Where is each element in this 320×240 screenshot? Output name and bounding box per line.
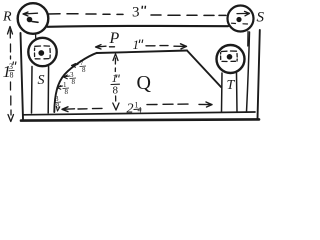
left dimension dashed line upper [9,30,11,59]
post T left side [221,73,224,112]
frame inner bottom rail [23,112,255,115]
svg-text:P: P [109,30,120,47]
frame outer bottom edge [21,119,259,120]
dimension 1/8in dashed lower [115,96,117,101]
pulley S hub dot [236,17,241,22]
pulley S2 dashed square [35,46,51,59]
string pulley S to pulley T [247,32,249,47]
dimension 3in dashed line left half [48,13,123,16]
ramp right slant [187,51,221,88]
svg-text:1: 1 [112,71,118,85]
dimension 1/8in up arrowhead [113,54,118,61]
ramp callout arrow 1 [72,64,79,68]
svg-text:8: 8 [82,66,86,74]
svg-text:8: 8 [113,85,119,97]
bottom dimension dashes right [147,103,188,106]
pulley R hub dot [27,17,33,23]
pulley S circle [228,6,254,32]
frame left edge [21,33,24,119]
svg-text:S: S [38,73,45,88]
pulley T hub dot [227,54,233,60]
svg-text:3: 3 [132,5,140,21]
string pulley R to pulley S2 [35,33,37,40]
svg-text:S: S [257,10,265,26]
svg-text:2: 2 [127,102,134,117]
pulley S2 hub dot [38,50,44,56]
svg-text:1: 1 [133,37,140,52]
svg-text:8: 8 [56,102,60,110]
dimension 1in dashes [146,45,168,47]
ramp callout bottom arrow [56,107,60,112]
dimension 3in left arrowhead (inside pulley R) [23,12,38,16]
frame inner right edge [247,32,250,112]
svg-text:Q: Q [137,72,152,94]
pulley S hub marks [232,22,248,25]
pulley R circle [18,3,49,34]
dimension 1/8in fraction bar [111,83,120,85]
svg-text:8: 8 [65,88,69,96]
svg-text:8: 8 [72,78,76,86]
svg-text:8: 8 [10,71,14,80]
paper background [0,0,266,128]
bottom dimension right arrowhead [199,102,212,107]
ramp callout arrow 3 [57,86,63,90]
dimension 1/8in down arrowhead [113,103,119,110]
svg-text:4: 4 [138,106,142,115]
dimension 3in right arrowhead (inside pulley S) [237,11,250,15]
dimension 1in right arrowhead [174,44,187,49]
bottom dimension dashes left [78,107,102,110]
left dimension 1-3/8in up arrowhead [8,27,13,35]
dimension 1in left arrowhead [96,45,107,49]
left dimension dashed line lower [10,82,13,115]
left dimension down arrowhead [8,115,14,122]
pulley S2 circle (lower-left) [28,38,56,66]
pulley T circle [217,45,245,73]
svg-text:R: R [2,10,12,25]
dimension 1/8in dashed upper [114,58,116,72]
frame outer right edge [258,30,260,119]
dimension 1in dash after left arrow [110,46,115,48]
post S left side [31,67,34,114]
post T right side [236,73,239,112]
pulley R hub smudge [32,21,38,24]
frame top edge [48,25,229,28]
ramp callout arrow 2 [64,75,70,79]
pulley T dashed square [221,51,238,62]
ramp left curve [54,53,97,112]
ramp top edge [97,51,187,54]
post S right side [47,67,49,114]
dimension 3in dashed line right half [151,14,226,16]
bottom dimension 2-1/4 left arrowhead [62,107,75,112]
svg-text:T: T [227,78,236,93]
